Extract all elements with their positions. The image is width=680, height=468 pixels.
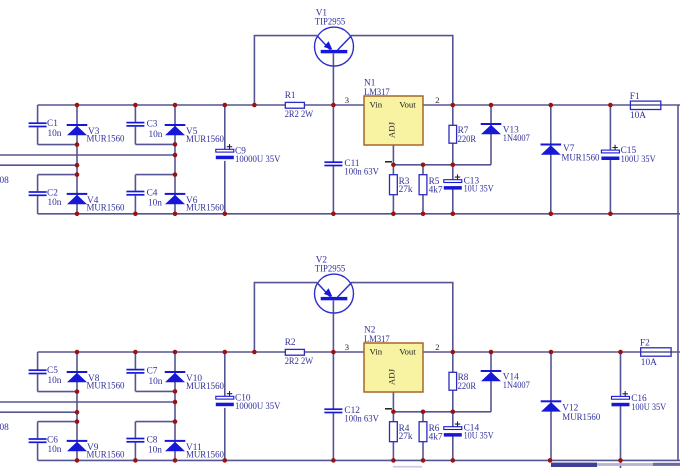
junction dots on top positive rail [549,103,554,108]
label C14 [464,423,494,441]
capacitor C6 10n [29,438,47,443]
label F2 [640,338,657,367]
svg-text:100n 63V: 100n 63V [344,168,379,178]
wire: right-edge output bus vertical x=678 [677,105,679,460]
label C16 [631,394,666,413]
svg-text:220R: 220R [458,135,477,145]
capacitor C8 10n [126,438,144,443]
wire: R6 branch to ground [422,412,424,461]
junction dots on V8/V9 branch [75,389,80,394]
pin 3 of N1 [345,95,349,105]
svg-text:C4: C4 [147,189,158,199]
capacitor C4 10n [126,191,144,196]
no-connect tick at ADJ node [385,161,392,163]
label V10 [186,374,224,392]
svg-text:MUR1560: MUR1560 [186,135,224,145]
wire: R7 branch from Vout node [452,105,454,165]
svg-text:10n: 10n [48,445,62,455]
svg-text:Vout: Vout [399,347,416,357]
op-amp regulator U/N1 LM317 body [364,96,423,145]
diode V11 MUR1560 [165,440,186,451]
resistor R1 2R2 2W [285,102,304,108]
wire: C7 snubber loop leg [135,352,175,391]
label V14 [503,372,530,390]
wire: C16 output cap branch (runs past rail off-canvas) [620,352,622,468]
junction dots on lower ADJ net [451,410,456,415]
svg-text:10A: 10A [641,358,657,368]
junction dots on upper ground rail [75,212,80,217]
junction dots on top positive rail [489,103,494,108]
label C1 [47,119,62,139]
svg-text:Vin: Vin [370,100,383,110]
label C15 [621,146,656,165]
label C8 [147,436,163,456]
svg-text:220R: 220R [458,382,477,392]
junction dots on top positive rail [252,103,257,108]
label R8 [458,373,477,392]
label V11 [186,443,224,461]
junction dots on upper ground rail [549,212,554,217]
junction dots on upper ground rail [421,212,426,217]
diode V3 MUR1560 [67,124,88,135]
junction dots on lower positive rail [549,350,554,355]
wire: C9 filter cap branch x=224.8 [224,105,226,214]
junction dots on top positive rail [331,103,336,108]
svg-text:Vout: Vout [399,100,416,110]
capacitor C10 10000U 35V [216,391,234,406]
junction dots on lower positive rail [489,350,494,355]
svg-text:10n: 10n [149,130,163,140]
wire: LM317 N2 ADJ pin drop [392,392,394,412]
svg-text:100U 35V: 100U 35V [621,155,656,165]
label V1 [315,9,346,28]
wire: V2 emitter feed [254,283,317,352]
artifact: faint mark bottom left of centre [393,466,422,468]
svg-text:C7: C7 [147,367,158,377]
junction dots on lower ground rail [618,458,623,463]
junction dots on ADJ net [391,163,396,168]
svg-text:3: 3 [345,342,349,352]
junction dots on lower positive rail [223,350,228,355]
svg-text:Vin: Vin [370,347,383,357]
junction dots on top positive rail [133,103,138,108]
svg-text:LM317: LM317 [364,88,390,98]
wire: AC input C from transformer (off-page) to V10/V11 junction [0,401,175,403]
svg-text:2R2 2W: 2R2 2W [285,357,314,367]
label R2 [285,338,314,367]
svg-text:10n: 10n [148,446,162,456]
junction dots on upper ground rail [608,212,613,217]
label V9 [87,443,125,461]
svg-text:27k: 27k [399,432,413,442]
svg-text:C8: C8 [147,436,158,446]
resistor R2 2R2 2W [285,349,304,355]
label V8 [87,374,125,392]
wire: R5 branch to ground [422,165,424,214]
junction dots on V5/V6 branch [173,172,178,177]
label R6 [429,424,443,443]
capacitor C3 10n [126,122,144,127]
svg-text:TIP2955: TIP2955 [315,264,346,274]
wire: V2 collector run to Vout node [351,283,453,352]
svg-text:27k: 27k [399,185,413,195]
pin 3 of N2 [345,342,349,352]
wire: V7 protection diode branch [550,105,552,214]
junction dots on upper ground rail [331,212,336,217]
junction dots on V10/V11 branch [173,419,178,424]
junction dots on top positive rail [223,103,228,108]
svg-text:TIP2955: TIP2955 [315,17,346,27]
label V7 [562,144,600,163]
svg-text:MUR1560: MUR1560 [186,204,224,214]
svg-text:LM317: LM317 [364,335,390,345]
svg-text:10U 35V: 10U 35V [464,184,494,194]
resistor R7 220R [449,125,457,143]
wire: V8/V9 bridge branch vertical x=77 [76,352,78,460]
resistor R8 220R [449,372,457,390]
svg-text:100U 35V: 100U 35V [631,403,666,413]
pin 2 of N2 [435,342,439,352]
capacitor C12 100n 63V [324,408,342,413]
wire: lower positive rail y=352 [38,351,680,353]
wire: C13 branch to ground [452,165,454,214]
svg-text:4k7: 4k7 [429,186,443,196]
label C10 [235,394,281,412]
wire: V3/V4 bridge branch vertical x=77 [76,105,78,214]
svg-text:MUR1560: MUR1560 [87,382,125,392]
svg-text:10n: 10n [48,129,62,139]
wire: V1 collector run to Vout node [351,36,453,105]
capacitor C11 100n 63V [324,161,342,166]
capacitor C7 10n [126,369,144,374]
junction dots on V10/V11 branch [173,389,178,394]
junction dots on lower ground rail [173,458,178,463]
label R5 [429,177,443,196]
capacitor C1 10n [29,122,47,127]
svg-text:10n: 10n [148,199,162,209]
junction dots on lower ADJ net [391,410,396,415]
junction dots on lower ground rail [331,458,336,463]
label C11 [344,159,379,177]
wire: C15 output cap branch [609,105,611,214]
svg-text:10U 35V: 10U 35V [464,431,494,441]
diode V8 MUR1560 [67,371,88,382]
fuse F2 10A [641,348,671,356]
label C13 [464,176,494,194]
resistor R4 27k [390,422,398,442]
label C12 [344,406,379,424]
pin name Vout of N2 [399,347,416,357]
svg-text:100n 63V: 100n 63V [344,415,379,425]
label N1 LM317 [364,79,390,99]
label V5 [186,127,224,145]
transistor V1 TIP2955 [315,27,354,66]
svg-text:ADJ: ADJ [387,368,397,385]
wire: R4 branch to ground [392,412,394,461]
junction dots on ADJ net [421,163,426,168]
wire: C2 snubber loop leg [38,175,77,214]
wire: lower ADJ net horizontal run [393,411,491,413]
junction dots on V3/V4 branch [75,172,80,177]
svg-text:MUR1560: MUR1560 [87,135,125,145]
junction dots on V8/V9 branch [75,419,80,424]
svg-text:N1: N1 [364,79,376,89]
svg-text:2: 2 [435,342,439,352]
junction dots on lower ground rail [223,458,228,463]
svg-text:1N4007: 1N4007 [503,381,530,391]
capacitor C5 10n [29,369,47,374]
pin 2 of N1 [435,95,439,105]
wire: C6 snubber loop leg [38,422,77,461]
diode V14 1N4007 [481,370,502,381]
label V13 [503,125,530,143]
svg-text:MUR1560: MUR1560 [562,154,600,164]
diode V9 MUR1560 [67,440,88,451]
junction dots on upper ground rail [451,212,456,217]
capacitor C14 10U 35V [444,421,462,436]
junction dots on V3/V4 branch [75,163,80,168]
junction dots on lower positive rail [331,350,336,355]
svg-text:MUR1560: MUR1560 [186,382,224,392]
wire: V1 base drop / C11 branch x=333.4 [332,54,334,214]
diode V4 MUR1560 [67,193,88,204]
junction dots on upper ground rail [133,212,138,217]
svg-text:C6: C6 [47,435,58,445]
wire: V10/V11 bridge branch vertical x=175 [174,352,176,460]
wire: C10 filter cap branch x=224.8 [224,352,226,460]
wire: ground rail of upper supply y=213.8 [38,213,680,215]
diode V13 1N4007 [481,123,502,134]
junction dots on lower ground rail [421,458,426,463]
wire: V5/V6 bridge branch vertical x=175 [174,105,176,214]
wire: V2 base drop / C12 branch [332,301,334,461]
junction dots on lower positive rail [75,350,80,355]
wire: V1 emitter feed (x=254.4 riser and y=35.6 run) [254,36,317,105]
pin name Vin of N1 [370,100,383,110]
svg-text:1N4007: 1N4007 [503,134,530,144]
resistor R6 4k7 [419,422,427,442]
wire: R3 branch to ground [392,165,394,214]
capacitor C9 10000U 35V [216,144,234,159]
wire: ground rail of lower supply y=460.4 [38,459,680,461]
svg-text:2R2 2W: 2R2 2W [285,110,314,120]
svg-text:10000U 35V: 10000U 35V [235,402,281,412]
svg-text:2: 2 [435,95,439,105]
svg-text:F1: F1 [630,92,640,102]
label R1 [285,91,314,120]
svg-text:10A: 10A [630,111,646,121]
junction dots on lower ground rail [133,458,138,463]
junction dots on top positive rail [608,103,613,108]
artifact: cropped watermark text bottom centre [551,463,597,467]
svg-text:3: 3 [345,95,349,105]
label V3 [87,127,125,145]
wire: AC input A from transformer (off-page) to V5/V6 junction [0,154,175,156]
capacitor C2 10n [29,191,47,196]
label C2 [47,188,62,208]
wire: top positive rail (node after bridge, y=105) [38,104,680,106]
label F1 [630,92,646,121]
junction dots on lower positive rail [252,350,257,355]
junction dots on lower positive rail [451,350,456,355]
svg-text:C2: C2 [47,188,58,198]
svg-text:08: 08 [0,423,9,433]
label R7 [458,126,477,145]
svg-text:MUR1560: MUR1560 [186,451,224,461]
capacitor C15 100U 35V [601,145,619,160]
junction dots on ADJ net [451,163,456,168]
junction dots on lower ground rail [75,458,80,463]
wire: V14 cathode-to-ADJ leg [490,352,492,412]
no-connect tick at lower ADJ node [385,408,392,410]
svg-text:MUR1560: MUR1560 [87,204,125,214]
label V4 [87,196,125,214]
resistor R5 4k7 [419,175,427,195]
diode V10 MUR1560 [165,371,186,382]
pin name Vout of N1 [399,100,416,110]
transistor V2 TIP2955 [315,274,354,313]
label C3 [147,120,163,140]
svg-text:C1: C1 [47,119,58,129]
diode V5 MUR1560 [165,124,186,135]
label R3 [399,177,413,195]
label C6 [47,435,62,455]
label V6 [186,196,224,214]
junction dots on lower positive rail [173,350,178,355]
junction dots on upper ground rail [391,212,396,217]
wire: LM317 N1 ADJ pin drop [392,145,394,165]
op-amp regulator U/N2 LM317 body [364,343,423,392]
wire: AC input D from transformer (off-page) to V8/V9 junction [0,411,77,413]
junction dots on upper ground rail [173,212,178,217]
label C5 [47,366,62,386]
junction dots on lower ground rail [451,458,456,463]
label C4 [147,189,163,209]
wire: ADJ net horizontal run y=164.8 [393,164,491,166]
wire: V13 cathode-to-ADJ leg [490,105,492,165]
diode V7 MUR1560 [541,144,562,155]
label R4 [399,424,413,442]
junction dots on top positive rail [451,103,456,108]
label V12 [562,404,600,423]
label V2 [315,256,346,275]
junction dots on lower positive rail [618,350,623,355]
svg-text:F2: F2 [640,338,650,348]
junction dots on V5/V6 branch [173,153,178,158]
svg-text:ADJ: ADJ [387,121,397,138]
svg-text:C5: C5 [47,366,58,376]
wire: C8 snubber loop leg [135,422,175,461]
wire: AC input B from transformer (off-page) to V3/V4 junction [0,164,77,166]
wire: R8 branch from Vout node [452,352,454,412]
diode V6 MUR1560 [165,193,186,204]
svg-text:10n: 10n [48,198,62,208]
junction dots on lower ADJ net [421,410,426,415]
svg-text:MUR1560: MUR1560 [562,413,600,423]
junction dots on V10/V11 branch [173,400,178,405]
pin name Vin of N2 [370,347,383,357]
wire: V12 protection diode branch [550,352,552,460]
artifact: cropped watermark dark patch bottom right [653,463,680,466]
junction dots on upper ground rail [223,212,228,217]
resistor R3 27k [390,175,398,195]
label C9 [235,147,281,165]
diode V12 MUR1560 [541,400,562,411]
junction dots on lower positive rail [133,350,138,355]
svg-text:C3: C3 [147,120,158,130]
svg-text:10000U 35V: 10000U 35V [235,155,281,165]
junction dots on top positive rail [75,103,80,108]
svg-text:N2: N2 [364,326,376,336]
junction dots on V3/V4 branch [75,142,80,147]
artifact: cropped watermark light band bottom right [597,463,680,466]
fuse F1 10A [630,101,660,109]
svg-text:08: 08 [0,176,9,186]
svg-text:R1: R1 [285,91,296,101]
junction dots on lower ground rail [391,458,396,463]
capacitor C13 10U 35V [444,174,462,189]
junction dots on lower ground rail [548,458,553,463]
capacitor C16 100U 35V [612,391,630,406]
junction dots on V5/V6 branch [173,142,178,147]
svg-text:R2: R2 [285,338,296,348]
svg-text:10n: 10n [48,376,62,386]
junction dots on top positive rail [173,103,178,108]
wire: C4 snubber loop leg [135,175,175,214]
svg-text:MUR1560: MUR1560 [87,451,125,461]
label C7 [147,367,163,387]
label N2 LM317 [364,326,390,346]
wire: C1 snubber loop left leg [38,105,77,145]
svg-text:4k7: 4k7 [429,433,443,443]
wire: C14 branch to ground [452,412,454,461]
wire: C3 snubber loop leg [135,105,175,144]
wire: C5 snubber loop left leg [38,352,77,392]
svg-text:10n: 10n [149,377,163,387]
junction dots on V8/V9 branch [75,410,80,415]
